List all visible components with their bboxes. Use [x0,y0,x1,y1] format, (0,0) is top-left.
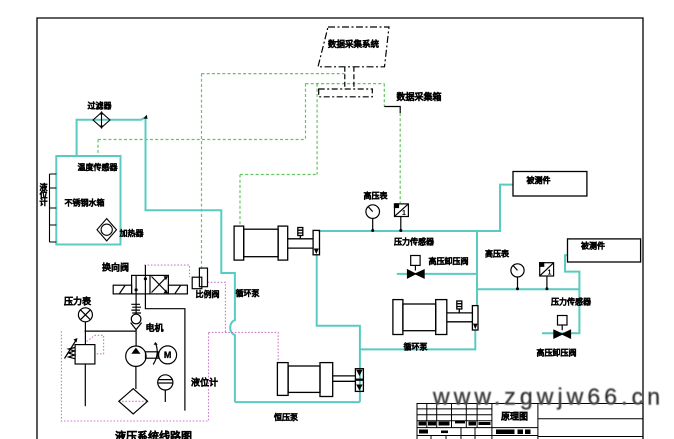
filter F1 diamond [93,113,110,128]
pump P2 rod [447,313,473,322]
level device circle [158,375,173,390]
wire pump to filter [135,366,137,389]
pump P1 rod [288,239,313,248]
pump P3 constant pressure left cap [277,363,288,396]
svg-text:电机: 电机 [146,322,164,333]
wire green horizontal to tank temperature sensor [98,139,306,141]
wire test box2 staircase and relief valve2 line [542,255,579,333]
wire green vertical to proportional valve [201,74,203,268]
wire dashed link right [353,67,355,89]
wire valve tank return line [145,294,185,411]
pump P3 check element upper [355,369,363,380]
svg-text:压力传感器: 压力传感器 [551,297,592,307]
filter F1 flow line with arrows [101,112,103,129]
coupling box [146,352,159,358]
wire green vertical x317 [316,84,318,175]
wire gauge G1 stem [372,218,374,231]
motor M circle [159,346,177,364]
wire suction header bottom [235,401,360,403]
wire circuit2 pressure line [477,288,579,290]
title block outer [417,404,643,439]
check valve ball and seat [131,314,141,324]
title block text marks row1 [419,422,427,426]
filter F2 dashed diagonal [119,400,148,402]
pump P1 check element [313,230,319,254]
wire green horizontal y174 [240,174,317,176]
title block small grid horizontals [417,409,538,436]
wire arrow tick at pipe top [144,115,148,119]
DAQ interface box dashed [319,89,373,97]
svg-text:比例阀: 比例阀 [196,289,220,299]
pump P3 check element lower [355,380,363,391]
wire pump discharge cross line [85,330,137,332]
svg-text:被测件: 被测件 [581,241,605,251]
relief valve HV1 bowtie [408,270,416,278]
valve V1 left cell port lines [136,275,145,294]
pump P1 bleed valve [298,228,303,236]
wire transmitter PT2 stem [546,276,548,289]
svg-text:高压表: 高压表 [364,191,389,201]
valve V1 left solenoid wing [113,285,131,294]
wire valve port down to check valve [135,294,137,314]
wire branch down to circuit2 and pump2 [476,231,478,306]
proportional valve PV tall box [199,268,207,287]
wire gauge stem to relief valve [84,322,86,345]
wire check valve to pump [135,330,137,346]
relief valve adjust arrow [65,340,77,359]
wire suction pipe tank-filter-directional area [77,117,235,402]
wire green drop to pump1 [239,175,241,227]
svg-text:数据采集系统: 数据采集系统 [328,39,380,49]
title block bottom row verticals [431,428,475,439]
svg-text:原理图: 原理图 [501,412,528,422]
pressure transmitter PT1 [395,204,409,217]
pump P2 check element [472,306,478,330]
title block signature bars [496,430,515,435]
svg-text:循环泵: 循环泵 [403,342,428,352]
svg-text:高压表: 高压表 [485,249,510,259]
svg-text:加热器: 加热器 [119,228,145,238]
proportional valve PV small box [192,277,202,289]
svg-text:数据采集箱: 数据采集箱 [397,91,442,102]
coupling rotation arc [153,344,157,365]
relief valve HV2 bowtie [554,330,562,338]
svg-text:液压系统线路图: 液压系统线路图 [115,429,192,439]
heater inner circle [101,224,112,235]
svg-text:液位计: 液位计 [191,377,218,388]
test piece box B2 [568,239,641,262]
junction dots on pressure lines [371,229,548,290]
svg-text:过滤器: 过滤器 [88,101,113,111]
pump P3 body [288,366,320,392]
level gauge on tank [50,174,57,242]
svg-text:M: M [164,350,172,360]
wire dashed link left [344,67,346,89]
pump P1 circulation left cap [234,226,244,260]
power unit dotted enclosure [61,331,208,421]
svg-text:液位计: 液位计 [40,182,48,207]
high pressure gauge G1 [366,205,380,219]
title block small grid verticals [427,404,477,428]
title block main verticals [492,404,538,439]
svg-text:压力表: 压力表 [64,296,92,307]
wire green horizontal under DAQ box [306,83,385,85]
wire green vertical to transmitter1 [399,113,401,203]
svg-text:循环泵: 循环泵 [235,288,260,298]
DAQ system parallelogram [318,27,389,67]
wire green signal bus top horizontal [202,73,345,75]
wire pilot hook at relief valve [87,335,104,354]
wire valve pilot port up [144,265,146,275]
svg-text:压力传感器: 压力传感器 [394,237,435,247]
pump P2 body [403,304,436,331]
pump P3 rod [333,376,356,381]
svg-text:恒压泵: 恒压泵 [274,412,298,422]
title block right section horizontals [538,419,643,437]
svg-text:高压卸压阀: 高压卸压阀 [429,256,469,266]
svg-text:www.zgwjw66.cn: www.zgwjw66.cn [432,384,660,410]
pump P3 right cap [320,363,333,397]
pump P2 circulation left cap [393,300,403,335]
tank T1 stainless steel water tank [56,156,120,245]
wire relief valve1 stub [397,273,477,275]
filter F2 diamond [119,389,148,414]
valve V1 right solenoid wing [168,285,187,294]
valve V1 crossed arrows [152,277,168,293]
svg-text:温度传感器: 温度传感器 [78,162,119,172]
relief valve RV body [75,345,95,364]
relief valve HV2 actuator [558,316,568,326]
svg-text:1: 1 [548,270,552,277]
svg-text:1: 1 [402,210,406,217]
relief valve HV1 actuator [411,256,420,266]
wire level device stem [164,390,166,402]
pump P1 body [244,229,278,257]
wire pump2 suction branch [360,330,475,349]
valve V1 junction dots [144,277,147,280]
directional valve V1 body [132,275,169,294]
test piece box B1 [513,172,587,197]
wire pilot dotted from valve to proportional valve [144,265,189,277]
wire relief valve drain [84,364,86,406]
title block text marks row2 [419,430,428,434]
wire main high pressure line from pump1 [318,185,513,231]
wire green drop into tank top [97,140,99,157]
pressure gauge PG circle [78,308,92,322]
svg-text:被测件: 被测件 [527,175,551,185]
wire transmitter PT1 stem [400,217,402,232]
wire pilot dotted proportional valve to pump3 [208,282,279,362]
pump P2 bleed valve [457,301,462,309]
svg-text:高压卸压阀: 高压卸压阀 [537,348,577,358]
spring of check valve [131,304,141,313]
pump P1 right cap [278,226,288,260]
pump M1 circle [126,346,146,366]
wire black jog between green segments [384,107,400,114]
high pressure gauge G2 [511,264,524,277]
relief valve spring [69,348,76,359]
heater diamond [97,219,117,241]
wire green vertical x384 [383,84,385,107]
wire gauge G2 stem [517,277,519,289]
pressure transmitter PT2 [540,263,554,276]
pump P2 right cap [436,300,447,335]
svg-text:不锈钢水箱: 不锈钢水箱 [65,198,105,208]
svg-text:换向阀: 换向阀 [102,262,129,273]
wire pump1 suction drop [317,255,360,402]
wire green vertical from DAQ box left [305,84,307,140]
